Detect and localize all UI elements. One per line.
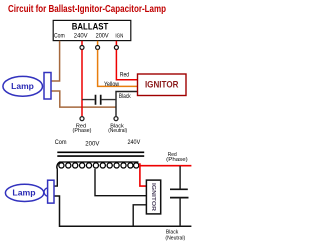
svg-text:240V: 240V: [74, 34, 88, 40]
lamp holder LP2: [48, 180, 54, 203]
wire lamp return bottom (lower): [54, 196, 191, 226]
wire 240V to phase terminal (red): [81, 50, 83, 117]
wire ignitor lower input to neutral: [133, 205, 146, 227]
svg-text:IGNITOR: IGNITOR: [150, 183, 156, 211]
ballast winding L1: [57, 162, 139, 169]
capacitor C1 leads: [82, 99, 116, 101]
ignitor U2 (lower): [146, 180, 160, 214]
svg-text:(Neutral): (Neutral): [108, 128, 127, 134]
svg-text:Red: Red: [120, 72, 129, 78]
wire 200V to ignitor Yellow (orange): [98, 50, 138, 87]
svg-text:(Phase): (Phase): [73, 128, 92, 134]
svg-text:Black: Black: [119, 94, 132, 100]
svg-text:(Phase): (Phase): [166, 157, 188, 163]
svg-text:(Neutral): (Neutral): [165, 235, 185, 241]
wire 240V red (lower): [140, 163, 192, 186]
capacitor C2 bottom lead: [179, 198, 181, 227]
svg-text:Com: Com: [55, 140, 67, 146]
wire IGN to ignitor Red (red): [116, 50, 137, 80]
terminal 200V: [96, 46, 100, 50]
ballast T1: [53, 20, 131, 40]
capacitor C2 top lead: [179, 166, 181, 189]
svg-text:Circuit for Ballast-Ignitor-Ca: Circuit for Ballast-Ignitor-Capacitor-La…: [8, 4, 166, 15]
capacitor C1 plates: [96, 95, 101, 105]
svg-text:240V: 240V: [128, 140, 141, 146]
terminal Red (Phase): [80, 117, 84, 121]
wire Com tap to lamp holder (lower): [54, 169, 57, 187]
wire 200V stub: [97, 41, 99, 46]
wire IGN stub: [115, 41, 117, 46]
svg-text:Com: Com: [54, 34, 65, 40]
lamp holder LP1: [44, 73, 51, 100]
terminal IGN: [114, 46, 118, 50]
wire 240V stub: [81, 41, 83, 46]
wire 200V tap to ignitor (lower): [95, 169, 146, 196]
svg-text:Lamp: Lamp: [12, 188, 35, 198]
svg-text:Lamp: Lamp: [11, 81, 34, 91]
svg-text:BALLAST: BALLAST: [72, 22, 109, 33]
terminal 240V: [80, 46, 84, 50]
svg-text:IGN: IGN: [115, 34, 123, 40]
transformer core line 2: [57, 155, 144, 157]
terminal Black (Neutral): [114, 117, 118, 121]
wire Com to lamp holder (brown): [51, 41, 59, 81]
capacitor C2 plates: [170, 189, 189, 197]
svg-text:IGNITOR: IGNITOR: [145, 80, 179, 91]
lamp LP2: [5, 184, 43, 201]
svg-text:Yellow: Yellow: [104, 82, 120, 88]
wire lamp return to neutral (brown): [51, 91, 116, 107]
svg-text:200V: 200V: [96, 34, 109, 40]
svg-text:200V: 200V: [85, 141, 99, 147]
wire ignitor Black to neutral: [116, 92, 138, 117]
transformer core line 1: [57, 151, 144, 153]
lamp LP1: [3, 76, 43, 96]
ignitor U1: [138, 74, 187, 96]
lamp base contact arc: [44, 188, 48, 196]
